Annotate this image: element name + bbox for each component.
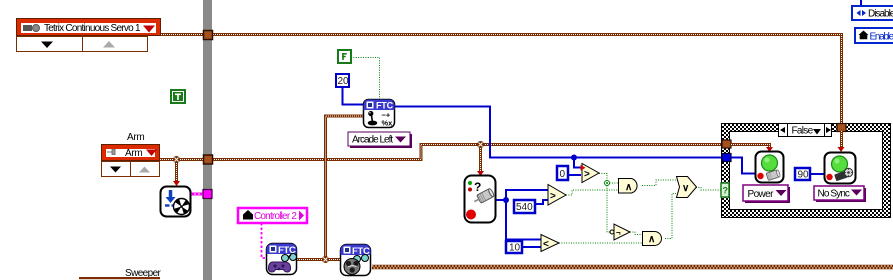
wire: green comparator1 out — [599, 174, 607, 184]
wire: blue 20 to joystick VI — [343, 87, 364, 105]
wire: blue joystick value — [395, 107, 722, 158]
magenta tunnel square on gray bar — [203, 190, 212, 199]
numeric constant 90 — [795, 168, 810, 181]
FTC controller read VI icon 1 — [267, 244, 297, 275]
svg-text:20: 20 — [338, 76, 350, 87]
wire: blue stub top right — [860, 0, 862, 6]
Power VI icon — [756, 152, 784, 183]
enum No Sync — [814, 186, 866, 202]
tunnel square blue on case left — [722, 154, 731, 162]
case selector label "False" — [779, 124, 832, 137]
numeric constant 0 — [557, 166, 568, 180]
svg-text:0: 0 — [560, 169, 566, 180]
wire: green comparator2 out — [566, 190, 618, 195]
svg-text:FTC: FTC — [376, 101, 394, 111]
junction dot (arm wire split) — [173, 156, 180, 163]
wire: green less-than out — [559, 242, 642, 244]
svg-text:>: > — [550, 191, 556, 202]
wire: joystick VI device ref from bottom chain — [326, 116, 364, 260]
AND gate 1 — [619, 179, 638, 194]
svg-text:Tetrix Continuous Servo 1: Tetrix Continuous Servo 1 — [44, 23, 141, 34]
junction square on gray bar (arm wire) — [204, 155, 213, 164]
wire: magenta servo-set VI to loop tunnel — [190, 193, 203, 196]
wire: branch down to servo-set VI — [175, 161, 178, 182]
svg-text:10: 10 — [509, 243, 521, 254]
selector terminal ? — [721, 183, 729, 197]
svg-text:∧: ∧ — [648, 234, 655, 245]
wire: branch down to motor-card icon — [479, 146, 482, 172]
junction square on gray bar (servo wire) — [204, 31, 213, 40]
FTC joystick VI icon — [364, 100, 395, 128]
wire: magenta controller 2 — [262, 223, 267, 258]
wire: 10 to comparator — [522, 246, 541, 248]
wire: servo device ref (brown dotted) top — [161, 35, 842, 124]
sweeper control top edge — [79, 277, 160, 279]
svg-text:Arm: Arm — [127, 132, 144, 143]
wire: 90 to NoSync VI — [810, 173, 824, 175]
svg-text:Arcade Left: Arcade Left — [352, 135, 393, 146]
svg-text:Controller 2: Controller 2 — [254, 211, 297, 222]
comparator greater-than 1 — [581, 164, 600, 183]
wire: blue inside case to Power VI — [731, 158, 755, 174]
tunnel square on case top — [837, 124, 846, 132]
junction dot at bottom chain — [322, 256, 329, 263]
svg-text:Power: Power — [748, 189, 775, 200]
svg-text:<: < — [543, 239, 549, 250]
wire: green OR out to selector — [696, 188, 721, 191]
ring constant Enable — [855, 28, 893, 43]
junction dot at x=480 — [477, 141, 484, 148]
svg-text:¬: ¬ — [616, 229, 621, 238]
svg-text:%x: %x — [382, 119, 394, 128]
wire: controller chain between FTC icons — [297, 258, 340, 261]
wire: thick device array out of FTC icon 2 — [372, 266, 893, 268]
arm inc/dec buttons — [102, 162, 160, 177]
svg-text:∨: ∨ — [682, 183, 689, 194]
wire: ref inside case to Power VI — [731, 145, 770, 149]
case structure — [721, 123, 891, 218]
FTC controller read VI icon 2 — [341, 245, 371, 276]
OR gate — [677, 177, 697, 198]
ring constant Disable — [852, 6, 893, 20]
numeric constant 540 — [514, 200, 535, 213]
svg-text:Arm: Arm — [125, 148, 142, 159]
wire: Arm device ref (brown dotted) — [160, 145, 721, 160]
svg-text:∧: ∧ — [625, 182, 632, 193]
servo control inc/dec buttons — [17, 37, 148, 52]
Arm servo control — [101, 144, 160, 161]
wire: green F to joystick VI — [351, 58, 380, 100]
junction green circle — [605, 181, 610, 186]
numeric constant 10 — [506, 241, 522, 254]
svg-text:No Sync: No Sync — [818, 189, 850, 200]
boolean constant T — [170, 89, 186, 104]
comparator greater-than 2 — [548, 185, 566, 206]
numeric constant 20 — [336, 74, 349, 87]
servo set VI icon — [161, 187, 191, 217]
svg-text:Enable: Enable — [870, 32, 893, 43]
enum Controller 2 — [238, 208, 307, 223]
wire: green AND1 out — [642, 180, 676, 186]
svg-text:90: 90 — [798, 170, 810, 181]
wire: green NOT out — [630, 232, 642, 235]
svg-text:Disable: Disable — [868, 9, 893, 20]
enum Arcade Left — [348, 132, 412, 148]
wire: servo ref inside case to No Sync VI — [840, 131, 843, 148]
AND gate 2 — [643, 232, 662, 246]
junction dot blue — [571, 155, 577, 161]
tunnel square brown on case left — [722, 140, 731, 148]
svg-text:?: ? — [723, 186, 729, 196]
svg-text:540: 540 — [516, 202, 533, 213]
wire: blue branch to comparator 1 — [574, 158, 581, 168]
NOT gate — [610, 224, 630, 240]
enum Power — [743, 185, 790, 203]
svg-text:False: False — [792, 126, 814, 137]
wire: 540 to comparator — [535, 200, 548, 204]
wire: green AND2 out — [665, 194, 676, 239]
No Sync VI icon — [825, 153, 856, 184]
comparator less-than — [541, 235, 559, 252]
Tetrix servo control (top-left) — [16, 18, 161, 36]
svg-text:?: ? — [474, 180, 481, 194]
wire: blue card out — [496, 199, 506, 201]
svg-text:>: > — [584, 169, 590, 180]
while loop left border (gray bar) — [203, 0, 212, 280]
motor card icon — [465, 176, 496, 223]
wire: 0 to comparator — [568, 174, 581, 176]
boolean constant F — [338, 50, 351, 63]
